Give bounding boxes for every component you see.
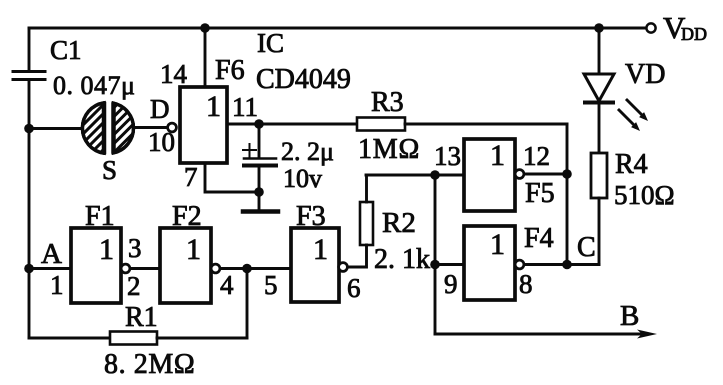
wire right column vertical [566, 124, 569, 265]
inverter F2 [160, 228, 211, 303]
svg-text:4: 4 [220, 270, 234, 300]
svg-text:11: 11 [232, 92, 258, 122]
pin 10 bubble of F6 [168, 123, 177, 132]
svg-text:D: D [150, 94, 170, 124]
wire left rail upper [28, 28, 31, 71]
wire R4 bottom lead [598, 198, 601, 265]
svg-text:F2: F2 [172, 201, 202, 232]
svg-text:0. 047μ: 0. 047μ [53, 71, 135, 100]
svg-text:DD: DD [681, 24, 707, 44]
inverter F6 [180, 87, 227, 163]
wire left rail lower [28, 80, 31, 339]
resistor R2 [360, 202, 373, 245]
svg-text:B: B [620, 300, 639, 332]
sensor S left half [60, 60, 211, 211]
wire F5 output to column [524, 173, 567, 176]
wire pin 13 input [366, 174, 464, 177]
inverter F4 [464, 226, 515, 300]
capacitor C2 plus sign [243, 144, 256, 157]
pin 2 bubble of F1 [121, 264, 130, 273]
svg-text:A: A [41, 238, 62, 270]
capacitor C1 [13, 72, 45, 80]
svg-text:9: 9 [444, 269, 458, 299]
pin 8 bubble of F4 [515, 260, 524, 269]
svg-text:1: 1 [206, 90, 221, 123]
inverter F1 [71, 228, 121, 303]
sensor S gap edges [104, 104, 114, 152]
wire riser to F2 output node [246, 269, 249, 339]
node junction F5 out [562, 169, 572, 179]
LED VD cathode bar [585, 101, 613, 105]
node junction pin11-cap [254, 119, 264, 129]
ground [243, 209, 278, 214]
svg-text:CD4049: CD4049 [256, 64, 351, 95]
LED light arrow 1 [627, 100, 648, 121]
svg-text:8. 2MΩ: 8. 2MΩ [104, 349, 195, 380]
wire R2 bottom lead [347, 245, 367, 267]
svg-text:F5: F5 [525, 178, 555, 209]
pin 6 bubble of F3 [339, 263, 348, 272]
svg-text:F6: F6 [215, 55, 245, 86]
svg-text:10v: 10v [283, 164, 322, 193]
sensor S right half [60, 60, 216, 216]
svg-text:1: 1 [186, 233, 201, 266]
node junction F2out-R1 [242, 264, 252, 274]
node A junction [24, 264, 34, 274]
svg-text:5: 5 [264, 270, 278, 300]
wire R2 top lead [365, 175, 368, 202]
wire LED anode lead [598, 28, 601, 74]
pin 4 bubble of F2 [211, 264, 220, 273]
svg-text:12: 12 [523, 141, 550, 171]
pin 12 bubble of F5 [515, 170, 524, 179]
wire output B [435, 333, 648, 336]
wire bottom rail to R1 [29, 337, 110, 340]
svg-text:F4: F4 [524, 223, 554, 254]
wire F4 output to R4 [524, 263, 599, 266]
svg-text:F3: F3 [296, 201, 326, 232]
svg-text:2. 1k: 2. 1k [374, 244, 430, 275]
wire pin 9 input [435, 263, 464, 266]
svg-text:2. 2μ: 2. 2μ [281, 137, 334, 166]
wire mid column vertical [434, 175, 437, 334]
svg-text:14: 14 [160, 59, 188, 89]
wire R1 to riser [157, 337, 247, 340]
svg-text:6: 6 [347, 273, 361, 303]
svg-text:R2: R2 [382, 207, 416, 239]
svg-text:1: 1 [50, 270, 64, 300]
wire LED to R4 [598, 104, 601, 153]
node junction pin9 [430, 260, 440, 270]
resistor R4 [591, 153, 607, 198]
svg-text:R4: R4 [615, 149, 648, 180]
svg-text:C1: C1 [50, 35, 82, 65]
svg-text:3: 3 [128, 233, 142, 263]
svg-text:S: S [102, 155, 117, 185]
resistor R3 [357, 118, 405, 131]
svg-text:1: 1 [313, 233, 328, 266]
svg-text:1: 1 [99, 233, 114, 266]
inverter F3 [291, 228, 339, 302]
LED VD triangle [584, 74, 614, 101]
svg-text:8: 8 [519, 269, 533, 299]
capacitor C2 2.2u lead top [258, 124, 261, 157]
wire pin 7 down [205, 163, 259, 192]
svg-text:R3: R3 [371, 87, 404, 118]
svg-text:1: 1 [490, 228, 505, 261]
wire VDD top rail [29, 27, 647, 30]
node junction LED-rail [594, 23, 604, 33]
svg-text:1MΩ: 1MΩ [358, 134, 420, 165]
svg-text:IC: IC [257, 28, 284, 58]
svg-text:R1: R1 [125, 302, 158, 333]
wire F2 to F3 [220, 267, 291, 270]
node junction pin7-cap [254, 187, 264, 197]
wire R3 to right column [405, 123, 567, 126]
node junction pin14-rail [200, 23, 210, 33]
svg-text:C: C [577, 232, 596, 263]
node junction R2-pin13 [430, 170, 440, 180]
wire pin 11 to R3 [227, 123, 357, 126]
node VDD terminal (open circle) [646, 23, 655, 32]
svg-text:510Ω: 510Ω [614, 180, 675, 210]
wire pin 14 to rail [204, 28, 207, 87]
resistor R1 [110, 332, 157, 345]
inverter F5 [464, 139, 515, 211]
svg-text:7: 7 [184, 162, 198, 192]
svg-text:F1: F1 [85, 201, 115, 232]
wire sensor to F6 input [134, 126, 167, 129]
node C junction [562, 260, 572, 270]
svg-text:10: 10 [148, 127, 175, 157]
capacitor C2 lead bottom [258, 167, 261, 210]
label VDD [663, 10, 707, 45]
wire to sensor [29, 127, 83, 130]
node junction left-sensor [24, 124, 34, 134]
svg-text:1: 1 [490, 139, 505, 172]
wire F1 to F2 [130, 267, 160, 270]
LED light arrow 2 [619, 110, 640, 131]
svg-text:2: 2 [127, 271, 141, 301]
svg-text:13: 13 [434, 141, 461, 171]
capacitor C2 plates [244, 159, 276, 166]
arrowhead B [637, 330, 657, 339]
wire A to F1 [29, 267, 71, 270]
svg-text:VD: VD [625, 59, 665, 90]
